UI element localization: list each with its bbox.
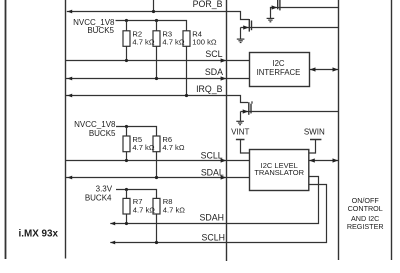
wire Q3 ground lead <box>240 112 242 121</box>
wire IRQ_B <box>66 96 249 103</box>
transistor Q3 gate bar <box>248 102 250 115</box>
svg-text:4.7 kΩ: 4.7 kΩ <box>132 38 154 47</box>
wire R2 bottom lead to SCL <box>126 46 128 60</box>
transistor Q1 gate bar <box>277 0 279 9</box>
arrowhead SDA into i.MX <box>67 77 72 81</box>
label BUCK4 <box>85 193 112 202</box>
transistor Q2 channel bar <box>251 21 253 31</box>
label SCL <box>205 49 222 59</box>
svg-text:SCL: SCL <box>205 49 222 59</box>
label R7 <box>133 197 143 206</box>
svg-text:REGISTER: REGISTER <box>347 222 384 231</box>
transistor Q2 body arrow <box>243 25 249 29</box>
svg-text:I2C: I2C <box>272 59 285 68</box>
wire R7 top lead <box>126 190 128 199</box>
label ON/OFF CONTROL AND I2C REGISTER <box>347 196 384 231</box>
value R2 4.7 kOhm <box>132 38 154 47</box>
ground Q3 <box>236 121 244 124</box>
node R7 / SDAH <box>125 222 128 225</box>
wire R1 lead from top <box>153 0 155 12</box>
transistor Q3 body arrow <box>243 109 249 113</box>
node R6 / SDAL <box>155 176 158 179</box>
transistor Q2 gate bar <box>248 19 250 32</box>
label R5 <box>132 135 142 144</box>
svg-text:SWIN: SWIN <box>304 128 325 137</box>
arrowhead U1 arrow left end <box>310 67 316 71</box>
transistor Q3 source/body wire <box>241 111 339 113</box>
wire VINT lead <box>241 140 250 154</box>
svg-text:VINT: VINT <box>231 128 249 137</box>
arrowhead SCLL into PMIC <box>221 158 227 162</box>
arrowhead IRQ_B into i.MX <box>67 94 72 98</box>
wire SCL <box>66 60 250 62</box>
node POR_B / R1 junction <box>152 10 155 13</box>
value R3 4.7 kOhm <box>162 38 184 47</box>
ground Q1 <box>267 18 275 21</box>
label SDA <box>205 67 223 77</box>
wire R6 bottom lead to SDAL <box>156 152 158 178</box>
svg-text:4.7 kΩ: 4.7 kΩ <box>162 38 184 47</box>
wire SCLH <box>110 185 326 243</box>
arrowhead U2 arrow right end <box>333 158 339 162</box>
label SWIN <box>304 128 325 137</box>
transistor Q2 source/body wire <box>241 27 339 29</box>
label I2C LEVEL TRANSLATOR <box>254 161 304 177</box>
resistor R6 <box>153 136 160 152</box>
value R4 100 kOhm <box>192 38 217 47</box>
i.MX 93x box right edge <box>65 0 67 259</box>
resistor R4 <box>183 31 190 47</box>
label SCLL <box>201 151 223 161</box>
label R6 <box>162 135 172 144</box>
svg-text:SDAL: SDAL <box>201 167 224 177</box>
svg-text:4.7 kΩ: 4.7 kΩ <box>162 143 184 152</box>
resistor R3 <box>153 31 160 47</box>
label SCLH <box>202 233 225 243</box>
svg-text:4.7 kΩ: 4.7 kΩ <box>132 143 154 152</box>
label R3 <box>162 29 172 38</box>
value R6 4.7 kOhm <box>162 143 184 152</box>
transistor Q1 source/body wire <box>270 7 339 9</box>
wire R4 bottom lead to IRQ_B <box>186 46 188 95</box>
op block I2C INTERFACE box U1 <box>250 53 310 87</box>
arrowhead SCLH to other devices <box>110 241 115 245</box>
wire SDAH <box>110 177 318 224</box>
svg-text:BUCK5: BUCK5 <box>87 26 114 35</box>
wire R7 bottom lead to SDAH <box>126 214 128 224</box>
label BUCK5 lower <box>89 129 116 138</box>
wire POR_B <box>67 12 249 20</box>
label 3.3V <box>96 185 113 194</box>
svg-text:IRQ_B: IRQ_B <box>196 84 223 94</box>
svg-text:4.7 kΩ: 4.7 kΩ <box>163 205 185 214</box>
rail NVCC_1V8 top <box>116 21 187 31</box>
arrowhead POR_B into i.MX <box>67 10 72 14</box>
arrowhead SDAL into i.MX <box>67 176 72 180</box>
arrowhead U2 arrow left end <box>309 158 315 162</box>
node R4 / IRQ_B <box>185 94 188 97</box>
arrowhead SDAH to other devices <box>110 222 115 226</box>
ON/OFF register box <box>339 0 392 260</box>
transistor Q3 channel bar <box>250 104 252 114</box>
resistor R5 <box>123 136 130 152</box>
svg-text:TRANSLATOR: TRANSLATOR <box>254 168 304 177</box>
svg-text:CONTROL: CONTROL <box>348 204 383 213</box>
svg-text:BUCK5: BUCK5 <box>89 129 116 138</box>
op block I2C LEVEL TRANSLATOR box U2 <box>250 150 309 191</box>
label NVCC_1V8 lower <box>74 120 116 129</box>
arrowhead U1 arrow right end <box>333 67 339 71</box>
wire R3 top lead <box>156 21 158 31</box>
label R2 <box>132 29 142 38</box>
label POR_B <box>193 0 223 9</box>
svg-text:SDA: SDA <box>205 67 223 77</box>
svg-text:SCLL: SCLL <box>201 151 223 161</box>
label R4 <box>192 29 202 38</box>
node R2 top <box>125 19 128 22</box>
svg-text:INTERFACE: INTERFACE <box>257 68 301 77</box>
label I2C INTERFACE <box>257 59 301 77</box>
node R5 / SCLL <box>125 159 128 162</box>
label i.MX 93x <box>19 229 59 240</box>
wire SCLL <box>66 160 250 162</box>
bidirectional arrow U2 to register <box>309 160 339 162</box>
node R7 top <box>125 188 128 191</box>
wire R3 bottom lead to SDA <box>156 46 158 78</box>
transistor Q3 drain stub <box>251 101 253 103</box>
node R8 / SCLH <box>155 241 158 244</box>
pin SWIN bar <box>310 139 321 141</box>
svg-text:POR_B: POR_B <box>193 0 223 9</box>
node R5 top <box>125 125 128 128</box>
rail NVCC_1V8 lower <box>116 127 157 137</box>
wire Q2 ground lead <box>240 28 242 39</box>
arrowhead SCL into PMIC <box>221 58 227 62</box>
value R8 4.7 kOhm <box>163 205 185 214</box>
label SDAH <box>200 212 224 222</box>
value R7 4.7 kOhm <box>133 205 155 214</box>
ground Q2 <box>237 39 245 42</box>
rail 3.3V <box>116 190 157 199</box>
wire R5 top lead <box>126 127 128 137</box>
label VINT <box>231 128 249 137</box>
svg-text:BUCK4: BUCK4 <box>85 193 112 202</box>
node R3 top <box>155 19 158 22</box>
svg-text:SCLH: SCLH <box>202 233 225 243</box>
arrowhead SDA into PMIC <box>221 76 227 80</box>
label BUCK5 upper <box>87 26 114 35</box>
resistor R8 <box>153 198 160 214</box>
svg-text:SDAH: SDAH <box>200 212 224 222</box>
value R5 4.7 kOhm <box>132 143 154 152</box>
label R8 <box>163 197 173 206</box>
arrowhead SDAL into PMIC <box>221 175 227 179</box>
label SDAL <box>201 167 224 177</box>
label IRQ_B <box>196 84 223 94</box>
svg-text:4.7 kΩ: 4.7 kΩ <box>133 205 155 214</box>
wire R5 bottom lead to SCLL <box>126 152 128 161</box>
wire R8 bottom lead to SCLH <box>156 214 158 243</box>
wire SDA <box>66 78 250 80</box>
pin VINT bar <box>236 139 245 141</box>
bidirectional arrow U1 to register <box>310 69 339 71</box>
svg-text:i.MX 93x: i.MX 93x <box>19 229 59 240</box>
wire SDAL <box>66 177 250 179</box>
resistor R7 <box>123 198 130 214</box>
wire Q1 ground lead <box>270 8 272 19</box>
wire R2 top lead <box>126 21 128 31</box>
resistor R2 <box>123 31 130 47</box>
wire SWIN lead <box>309 140 316 154</box>
i.MX 93x box left edge <box>5 0 7 259</box>
node R2 / SCL <box>125 59 128 62</box>
PMIC box left edge <box>226 0 228 261</box>
label NVCC_1V8 upper <box>73 18 115 27</box>
svg-text:100 kΩ: 100 kΩ <box>192 38 217 47</box>
node R3 / SDA <box>155 77 158 80</box>
transistor Q1 body arrow <box>272 5 278 9</box>
transistor Q1 channel bar <box>279 0 281 10</box>
